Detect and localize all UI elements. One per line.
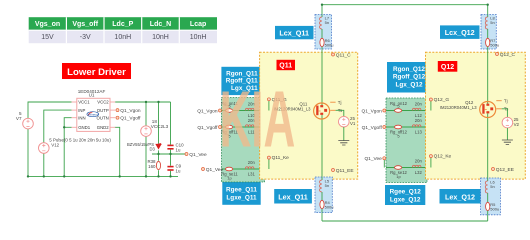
node Q1_Vee input Q12 [364, 156, 385, 167]
svg-text:Lgxe_Q11: Lgxe_Q11 [226, 195, 257, 202]
node Q11_G [267, 97, 287, 111]
svg-text:1u: 1u [176, 147, 181, 152]
capacitor C9 [167, 164, 181, 174]
svg-text:V2: V2 [514, 122, 520, 127]
svg-text:15V: 15V [41, 34, 54, 41]
resistor Rg_se12 [390, 166, 407, 179]
svg-text:Q12_EE: Q12_EE [496, 167, 514, 173]
svg-text:Q1_Vgon: Q1_Vgon [362, 109, 383, 115]
inductor L7 5n [321, 15, 323, 18]
svg-text:Lcx_Q12: Lcx_Q12 [445, 28, 475, 37]
voltage source V2 [502, 117, 519, 128]
wire Ts to V1 [336, 110, 344, 116]
svg-text:OUTP: OUTP [97, 108, 109, 113]
resistor Rg_off12 [390, 125, 408, 138]
node Q1_Vgoff input Q12 [362, 125, 386, 131]
wire kelvin row Q12 [386, 118, 483, 168]
svg-text:1p: 1p [396, 174, 401, 179]
module box Q11 [260, 52, 358, 179]
svg-text:D3: D3 [150, 147, 156, 152]
node Q12_C [496, 52, 516, 58]
node Q1_Vgon at OUTP [116, 108, 141, 114]
junction top bus left [321, 3, 323, 5]
pin Ts Q12 [496, 107, 509, 112]
resistor R5 500u [487, 193, 489, 202]
svg-text:500u: 500u [325, 204, 334, 209]
wire INN to ground drop [64, 118, 71, 177]
node Q12_G [429, 97, 449, 110]
label box Lex_Q11 [274, 189, 312, 204]
svg-text:Vgs_off: Vgs_off [72, 21, 98, 28]
svg-text:Lower Driver: Lower Driver [67, 67, 126, 78]
inductor L5 5n [321, 177, 323, 180]
wire V1 to ground [343, 127, 345, 141]
wire DC+ top bus [322, 4, 488, 6]
inductor L6 5n [487, 178, 489, 181]
voltage source V12 pulse [39, 137, 112, 153]
svg-text:Q1_Vgon: Q1_Vgon [120, 108, 141, 114]
svg-text:Q12: Q12 [441, 64, 454, 71]
label box Lcx_Q11 [275, 26, 314, 39]
node Q1_Vgoff at OUTN [116, 116, 141, 122]
wire C10 C9 branch [170, 102, 172, 176]
label box Rgon/Rgoff/Lgx Q11 [221, 67, 261, 95]
wire gate off row Q11 [222, 111, 266, 128]
voltage source V1 [339, 116, 356, 127]
svg-text:Lex_Q12: Lex_Q12 [445, 192, 475, 201]
parasitic box Lcx Q11 top [315, 15, 334, 50]
svg-text:1u: 1u [176, 169, 181, 174]
svg-text:Q12_Ke: Q12_Ke [434, 154, 452, 160]
wire gate on row Q11 [222, 110, 314, 112]
resistor Rg_on11 [221, 101, 238, 112]
svg-text:IM2120R040M1_L3: IM2120R040M1_L3 [440, 105, 477, 110]
label box Q11 [277, 60, 296, 70]
svg-text:GND2: GND2 [97, 125, 110, 130]
label box Lcx_Q12 [440, 25, 480, 39]
svg-text:Lgxe_Q12: Lgxe_Q12 [390, 196, 421, 203]
resistor Rg_on12 [390, 101, 408, 112]
svg-text:5n: 5n [325, 183, 329, 188]
resistor R6 500u [321, 29, 323, 38]
wire VCC2L3 branch [145, 102, 147, 176]
svg-text:10nH: 10nH [114, 34, 131, 41]
svg-text:Rgee_Q12: Rgee_Q12 [390, 188, 422, 195]
label box Rgon/Rgoff/Lgx Q12 [387, 62, 431, 93]
transistor Q11 IM2120R040M1_L3 [274, 102, 330, 119]
resistor R4 500u [321, 192, 323, 200]
wire R38 branch [158, 154, 160, 176]
svg-text:Q12_C: Q12_C [500, 52, 516, 58]
wire V12 bottom [43, 153, 45, 176]
wire kelvin row Q11 [222, 119, 318, 169]
svg-text:Ldc_P: Ldc_P [112, 21, 133, 28]
wire source vertical Q12 [487, 114, 489, 222]
inductor L8 5n [487, 15, 489, 18]
svg-text:V7: V7 [16, 116, 22, 121]
wire drain vertical Q11 [321, 5, 323, 106]
wire drain vertical Q12 [487, 5, 489, 105]
svg-text:Q1_Vee: Q1_Vee [364, 156, 382, 162]
svg-text:Q12_G: Q12_G [434, 97, 450, 103]
svg-text:1p: 1p [227, 175, 232, 180]
node Q1_Vgon input Q12 [362, 109, 386, 115]
svg-text:20n: 20n [415, 102, 423, 107]
resistor Rg_off11 [221, 125, 238, 138]
svg-text:INN: INN [78, 115, 85, 120]
svg-text:Q1_Vgoff: Q1_Vgoff [362, 125, 383, 131]
svg-text:20n: 20n [415, 118, 423, 123]
svg-text:Lcap: Lcap [190, 21, 206, 28]
inductor L11 20n [245, 118, 255, 134]
svg-text:5n: 5n [490, 184, 494, 189]
svg-text:L32: L32 [415, 170, 423, 175]
svg-text:Q11_C: Q11_C [336, 53, 351, 59]
svg-text:10nH: 10nH [190, 34, 207, 41]
svg-text:-3V: -3V [80, 34, 91, 41]
svg-text:INP: INP [78, 108, 85, 113]
inductor L10 20n [245, 102, 255, 118]
wire Ts to V2 [502, 109, 508, 118]
label box Lex_Q12 [440, 189, 481, 204]
svg-text:Q1_Vee: Q1_Vee [206, 167, 224, 173]
svg-text:Infineon: Infineon [88, 113, 99, 117]
svg-text:VCC2L3: VCC2L3 [151, 124, 169, 129]
wire GND2 drop [115, 127, 120, 176]
wire V2 to ground [506, 128, 508, 140]
node Q11_Ke [267, 155, 289, 169]
gate network box Q12 [386, 98, 427, 183]
svg-text:GND1: GND1 [78, 125, 91, 130]
svg-text:Q11_EE: Q11_EE [336, 168, 354, 174]
voltage source V7 [16, 111, 33, 129]
resistor R38 [147, 159, 160, 170]
wire gate on row Q12 [386, 110, 480, 112]
svg-text:L13: L13 [415, 130, 423, 135]
wire source vertical Q11 [321, 115, 323, 221]
capacitor C10 [167, 142, 184, 152]
inductor L13 20n [412, 118, 422, 134]
voltage source VCC2L3 [141, 119, 169, 136]
svg-text:Lex_Q11: Lex_Q11 [278, 192, 308, 201]
svg-text:Tj: Tj [504, 99, 508, 104]
node Q12_Ke [429, 154, 451, 168]
svg-text:Lgx_Q12: Lgx_Q12 [396, 81, 423, 88]
svg-text:VCC1: VCC1 [78, 100, 90, 105]
svg-text:Q1_Vgoff: Q1_Vgoff [120, 116, 141, 122]
svg-text:L31: L31 [248, 172, 256, 177]
node Q11_C [332, 53, 352, 59]
wire GND1 stub [64, 126, 71, 128]
wire VCC1 rail from V7 to U1 [28, 102, 72, 118]
svg-text:Tj: Tj [338, 100, 342, 105]
wire VCC2 rail [115, 101, 171, 103]
svg-text:Rgoff_Q12: Rgoff_Q12 [393, 74, 426, 81]
svg-text:Q11: Q11 [279, 63, 292, 70]
svg-text:VCC2: VCC2 [97, 100, 109, 105]
svg-text:Q1_Vee: Q1_Vee [189, 152, 207, 158]
parasitic box Lcx Q12 top [481, 15, 499, 50]
node Q1_Vee driver output [185, 152, 207, 158]
ground below V1 [338, 141, 349, 145]
svg-text:5n: 5n [325, 20, 329, 25]
svg-text:V1: V1 [350, 121, 356, 126]
label box Q12 [438, 61, 458, 72]
svg-text:Vgs_on: Vgs_on [35, 21, 60, 28]
svg-text:Lcx_Q11: Lcx_Q11 [279, 29, 309, 38]
svg-text:10nH: 10nH [152, 34, 169, 41]
parameter table [29, 17, 217, 43]
svg-text:V12: V12 [51, 142, 59, 147]
node Q1_Vee input Q11 [202, 167, 224, 173]
ground below V2 [502, 140, 513, 144]
wire DC- bottom bus [322, 220, 488, 222]
svg-text:Rgon_Q12: Rgon_Q12 [393, 66, 425, 73]
title Lower Driver [62, 63, 131, 79]
svg-text:5n: 5n [490, 20, 494, 25]
svg-text:160: 160 [148, 164, 156, 169]
pin Ts Q11 [330, 108, 343, 113]
inductor L31 20n [245, 160, 255, 176]
svg-text:500u: 500u [325, 42, 334, 47]
junction dots driver [27, 101, 172, 178]
resistor Rg_se11 [221, 167, 238, 180]
pin Tj Q11 [330, 100, 341, 105]
inductor L12 20n [412, 102, 422, 118]
node Q1_Vgon input Q11 [197, 109, 221, 115]
module box Q12 [426, 52, 526, 179]
resistor R7 500u [487, 29, 489, 38]
svg-text:20n: 20n [415, 159, 423, 164]
parasitic box Lex Q12 bottom [481, 178, 501, 215]
svg-text:Rgee_Q11: Rgee_Q11 [226, 187, 257, 194]
inductor L32 20n [412, 159, 422, 175]
node Q11_EE [332, 168, 354, 174]
svg-text:500u: 500u [490, 42, 499, 47]
wire INP rail from V12 to U1 [44, 110, 72, 143]
parasitic box Lex Q11 bottom [315, 177, 334, 213]
node Q1_Vgoff input Q11 [197, 125, 221, 131]
svg-text:500u: 500u [490, 206, 499, 211]
wire bottom ground rail [28, 175, 178, 177]
wire zener branch [158, 102, 160, 154]
svg-text:U1: U1 [89, 92, 95, 97]
wire gate off row Q12 [386, 111, 428, 128]
zener diode D3 BZV55/15VPS [127, 142, 161, 152]
gate network box Q11 [222, 98, 265, 183]
Infineon logo inside U1 [87, 112, 99, 117]
svg-text:Ldc_N: Ldc_N [150, 21, 171, 28]
svg-text:KIA: KIA [220, 75, 296, 164]
pin Tj Q12 [496, 99, 507, 104]
transistor Q12 IM2120R040M1_L3 [440, 100, 496, 117]
label box Rgee/Lgxe Q11 [222, 182, 260, 205]
wire Vee mid rail [152, 153, 187, 155]
svg-text:Q1_Vgon: Q1_Vgon [197, 109, 218, 115]
junction gate merge Q11 [264, 109, 266, 111]
svg-text:Q1_Vgoff: Q1_Vgoff [197, 125, 218, 131]
label box Rgee/Lgxe Q12 [385, 185, 425, 205]
junction gate merge Q12 [426, 109, 428, 111]
node Q12_EE [492, 167, 514, 173]
watermark [220, 75, 296, 164]
junction top bus right [487, 3, 489, 5]
wire V7 bottom [27, 129, 29, 177]
op-amp U1 gate driver IC 1ED04012AF [72, 89, 116, 131]
